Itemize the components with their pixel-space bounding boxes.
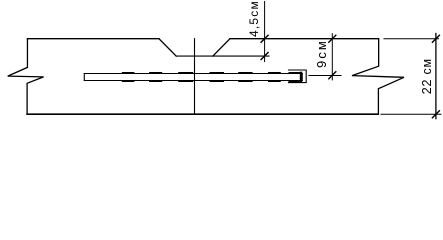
svg-text:22 см: 22 см	[420, 58, 434, 94]
svg-text:4,5см: 4,5см	[247, 0, 261, 37]
svg-text:9см: 9см	[314, 39, 329, 68]
